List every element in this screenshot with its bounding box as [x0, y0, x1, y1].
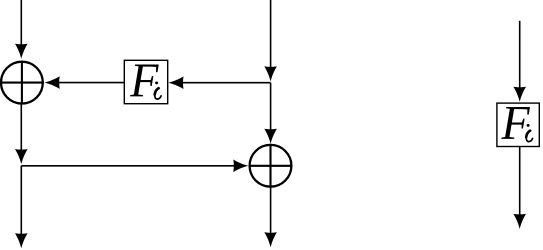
F box U2 [497, 103, 539, 146]
wire right input (top) [270, 0, 272, 70]
wire left branch to lower XOR (horizontal) [21, 165, 236, 167]
arrowhead into right branch node [264, 66, 277, 81]
wire left line below XOR A [20, 104, 22, 153]
svg-text:F: F [501, 97, 531, 151]
arrowhead into upper XOR [15, 44, 28, 59]
arrowhead into F box U2 [513, 87, 526, 102]
label F of U1 [129, 54, 159, 108]
arrowhead right diagram output [513, 214, 526, 229]
svg-text:F: F [129, 54, 159, 108]
arrowhead into lower XOR from top [264, 129, 277, 144]
F box U1 [124, 60, 167, 103]
arrowhead left output [15, 233, 28, 248]
wire left input (top) [20, 0, 22, 47]
label subscript i of U2 [526, 124, 532, 142]
arrowhead into XOR A from right [45, 76, 60, 89]
wire F box U1 to XOR A [58, 82, 125, 84]
wire right output (bottom) [270, 187, 272, 235]
arrowhead into lower XOR from left [233, 160, 248, 173]
wire right diagram output [519, 147, 521, 217]
arrowhead right output [264, 232, 277, 247]
arrowhead into left branch node [15, 149, 28, 164]
arrowhead into F box right side [168, 76, 183, 89]
XOR node B (lower right oplus) [249, 144, 293, 188]
label F of U2 [501, 97, 531, 151]
wire right branch to F box (horizontal) [182, 82, 271, 84]
wire right line below branch [270, 83, 272, 132]
wire left output (bottom) [20, 166, 22, 236]
wire right diagram input [519, 21, 521, 90]
XOR node A (upper left oplus) [0, 61, 44, 105]
label subscript i of U1 [155, 82, 161, 100]
